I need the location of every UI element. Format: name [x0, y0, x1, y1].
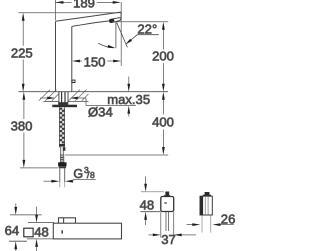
dimension 64 arrows [14, 204, 17, 251]
spout bottom edge [72, 21, 110, 27]
svg-text:189: 189 [73, 0, 95, 11]
column below side box [202, 216, 211, 233]
box outline [161, 197, 174, 212]
spout top edge [56, 12, 121, 22]
svg-text:64: 64 [5, 223, 20, 238]
threaded shank below deck [59, 107, 65, 155]
extension line top (225 level) [18, 12, 121, 14]
dimension 225 line with arrows [22, 13, 25, 92]
flange nut under deck [58, 102, 68, 105]
sensor dot in top view [62, 230, 64, 234]
svg-text:G: G [73, 167, 83, 181]
faucet outline (side view) [56, 12, 122, 92]
spout tip face [120, 12, 123, 18]
svg-text:8: 8 [90, 170, 95, 180]
dimension diameter 34 arrows [40, 97, 136, 106]
fitting lower band [59, 166, 66, 168]
shared reference line under max.35 / over diameter label [86, 105, 136, 107]
aerator at spout tip [109, 18, 121, 23]
dimension 400 line with arrows [162, 92, 165, 155]
dimension 48 arrows (box view) [144, 176, 147, 225]
extension line 400 bottom [65, 154, 168, 156]
dimension 189 line [55, 1, 120, 4]
shank through deck [59, 92, 68, 103]
dimension max.35 arrows [127, 77, 130, 117]
deck top line (long) [19, 91, 169, 93]
box side view [200, 196, 212, 215]
dash mark inside [164, 202, 167, 204]
22 degree annotation: arc with arrowhead [98, 43, 114, 48]
dimension 48 arrows (top view) [35, 207, 38, 251]
aerator outlet dark [110, 19, 115, 23]
extension line right (189/150 at spout tip) [120, 2, 122, 66]
48 bottom reference line (extends left of body) [27, 238, 54, 240]
dimension 380 line with arrows [23, 92, 26, 168]
dimension 150 line with arrows [72, 60, 121, 63]
dimension G3/8 text [73, 165, 95, 181]
deck bottom line right [68, 100, 88, 102]
22 degree annotation: spray axis line [117, 22, 128, 47]
body right edge [71, 27, 73, 92]
extension line left (189, body left edge extended) [54, 0, 56, 21]
48 top reference line [28, 222, 54, 224]
hex fitting [58, 162, 66, 166]
svg-text:26: 26 [221, 212, 236, 227]
spout top-view body [53, 218, 121, 239]
deck bottom line left [44, 100, 59, 102]
supply pipe below fitting [60, 168, 65, 187]
lower shank rod with thread texture [60, 155, 63, 162]
extension line outlet level (200) [113, 21, 169, 23]
svg-text:37: 37 [161, 232, 176, 247]
svg-text:48: 48 [140, 197, 155, 212]
dimension G3/8 arrows [44, 179, 96, 182]
dimension 26 arrows [187, 223, 234, 226]
64 bottom reference line [9, 240, 27, 242]
svg-text:380: 380 [11, 118, 33, 133]
48 bottom reference line (box view) [141, 211, 161, 213]
svg-text:200: 200 [152, 48, 174, 63]
extension line 380 bottom [20, 167, 58, 169]
svg-text:225: 225 [11, 45, 33, 60]
riser to label [85, 98, 87, 106]
extension lines for 37 [160, 212, 162, 237]
22 degree leader line with arrowhead [130, 35, 159, 41]
nub on top [165, 192, 169, 196]
nub side view [205, 192, 210, 195]
deck hatching left [39, 90, 59, 101]
square symbol for 48 [24, 228, 33, 237]
deck hatching right [69, 90, 89, 101]
dimension 37 line with arrows [149, 234, 197, 237]
64 top reference line [10, 214, 42, 216]
svg-text:max.35: max.35 [107, 92, 150, 107]
flange plate [52, 105, 77, 108]
svg-text:150: 150 [84, 55, 106, 70]
48 top reference line (box view) [141, 191, 164, 193]
aerator bump top view [59, 218, 76, 223]
pipe below box [166, 212, 169, 231]
22 degree annotation: vertical reference line [115, 22, 117, 48]
svg-text:48: 48 [34, 225, 49, 240]
svg-text:Ø34: Ø34 [88, 105, 113, 120]
dimension 200 line with arrows [162, 22, 165, 92]
svg-text:22°: 22° [137, 21, 157, 36]
sensor window on body right edge [72, 80, 75, 82]
body left edge [55, 22, 57, 92]
svg-text:400: 400 [152, 115, 174, 130]
